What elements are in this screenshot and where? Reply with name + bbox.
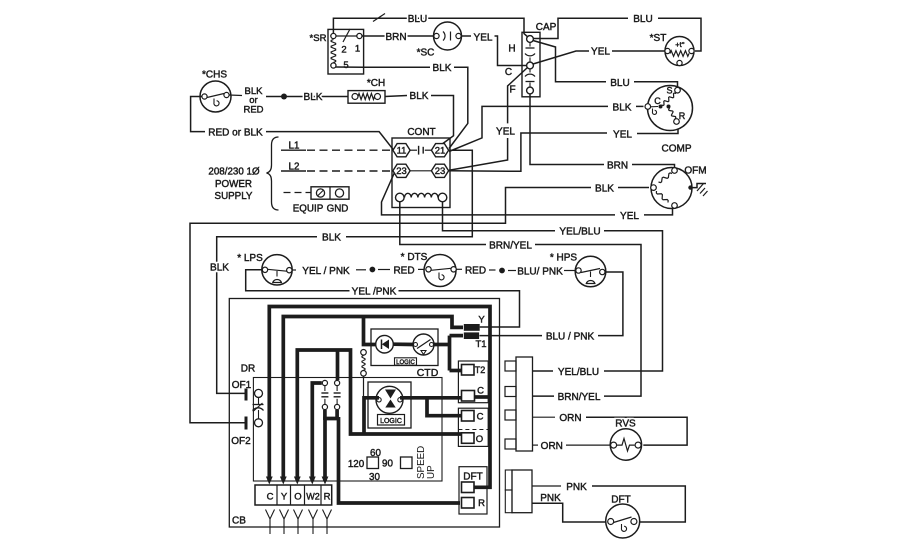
power supply brace — [267, 137, 279, 210]
svg-text:* DTS: * DTS — [401, 252, 428, 263]
svg-text:RVS: RVS — [615, 419, 636, 430]
wire BRN/YEL from contactor coil to board connector — [400, 202, 486, 245]
svg-text:*ST: *ST — [650, 33, 667, 44]
wire BLK from CH to contactor 21 — [385, 96, 407, 97]
svg-text:C: C — [505, 67, 512, 78]
svg-text:BLK: BLK — [410, 91, 429, 102]
wire YEL / PNK from LPS to junction — [292, 269, 296, 271]
logic block 2 box — [368, 382, 411, 428]
CONT terminal 23 left — [393, 164, 410, 177]
svg-text:208/230 1Ø: 208/230 1Ø — [208, 167, 260, 178]
svg-text:1: 1 — [355, 44, 360, 55]
wire BLU from CAP H to compressor S — [533, 41, 606, 82]
svg-text:CONT: CONT — [407, 127, 435, 138]
svg-text:* LPS: * LPS — [237, 253, 263, 264]
CAP terminal H — [527, 36, 534, 43]
terminal O square — [462, 433, 475, 444]
thick wire between CTD circles — [393, 342, 413, 346]
wire YEL/BLU from contactor coil to board connector — [443, 202, 556, 231]
wire YEL from SC to CAP C — [461, 35, 471, 37]
svg-text:BLU: BLU — [610, 78, 629, 89]
svg-text:H: H — [508, 44, 515, 55]
svg-text:LOGIC: LOGIC — [396, 360, 415, 366]
svg-text:S: S — [666, 86, 672, 96]
thick wire Y from strip to Y terminal — [283, 317, 463, 482]
svg-text:BLU/ PNK: BLU/ PNK — [517, 267, 563, 278]
svg-text:BLK: BLK — [322, 233, 341, 244]
DR relay contact 2 — [335, 380, 340, 385]
svg-text:21: 21 — [435, 146, 446, 157]
field wiring forks below strip — [266, 510, 275, 520]
svg-text:*SC: *SC — [417, 48, 435, 59]
LOGIC label box 2 — [378, 415, 405, 426]
svg-text:T1: T1 — [475, 339, 486, 350]
svg-text:C: C — [267, 492, 274, 503]
svg-text:YEL: YEL — [620, 211, 639, 222]
wire BLK from SR 5 to contactor 21 — [336, 66, 365, 68]
svg-text:R: R — [324, 492, 331, 503]
svg-text:*CHS: *CHS — [202, 70, 227, 81]
terminal box T2 C — [458, 361, 488, 403]
sensor chain to logic block — [361, 350, 367, 356]
board edge connector comb — [516, 357, 533, 451]
wire BRN from CAP F to OFM — [530, 94, 604, 165]
svg-text:BLK: BLK — [613, 102, 632, 113]
svg-text:BLU / PNK: BLU / PNK — [546, 332, 595, 343]
CTD LOGIC label box — [395, 358, 417, 365]
SR coil — [331, 40, 336, 63]
svg-text:C: C — [477, 412, 484, 423]
capacitor symbol between OF1 and OF2 — [253, 404, 264, 406]
CONT contact symbol — [410, 149, 417, 151]
CTD triac circle — [376, 335, 394, 353]
svg-text:COMP: COMP — [662, 144, 692, 155]
svg-text:RED or BLK: RED or BLK — [208, 128, 263, 139]
svg-text:BLK: BLK — [210, 263, 229, 274]
thermostat terminal strip C Y O W2 R — [255, 485, 332, 505]
svg-text:OF2: OF2 — [231, 436, 251, 447]
svg-text:BRN/YEL: BRN/YEL — [558, 392, 601, 403]
DFT terminal square — [462, 482, 475, 493]
control board CB box — [229, 299, 499, 528]
wire YEL from CAP C to contactor 23 — [508, 68, 528, 124]
svg-text:C: C — [477, 386, 484, 397]
terminal box C O — [458, 408, 488, 446]
DFT terminal box — [459, 467, 487, 514]
svg-text:PNK: PNK — [540, 493, 561, 504]
svg-text:BLK: BLK — [304, 92, 323, 103]
thick wire logic2 left joining O bus — [364, 398, 379, 433]
svg-text:YEL: YEL — [474, 33, 493, 44]
thick wire C from strip to C terminal and DFT — [269, 307, 490, 488]
wire ORN from connector to RVS right — [533, 416, 556, 418]
thick wire from Y line to CTD — [364, 317, 377, 345]
wire YEL/PNK from board Y terminal to LPS — [399, 291, 520, 327]
terminal C square upper — [462, 391, 475, 402]
wire YEL from contactor 23 to OFM — [382, 173, 616, 215]
wire BRN from SR contact to SC — [362, 35, 434, 37]
terminal Y bar — [464, 324, 480, 331]
terminal T1 bar — [464, 332, 479, 339]
wire YEL from contactor 23 to compressor R — [449, 133, 607, 171]
wire RED to DTS — [378, 269, 390, 271]
svg-text:120: 120 — [348, 459, 365, 470]
svg-text:YEL/BLU: YEL/BLU — [559, 227, 600, 238]
svg-text:* HPS: * HPS — [550, 253, 578, 264]
compressor time delay CTD box — [371, 329, 438, 366]
svg-text:5: 5 — [343, 60, 348, 71]
svg-text:YEL: YEL — [613, 129, 632, 140]
arrow tick on BLU wire — [373, 14, 385, 22]
svg-text:BRN/YEL: BRN/YEL — [489, 241, 532, 252]
svg-text:Y: Y — [281, 492, 288, 503]
svg-text:90: 90 — [382, 459, 393, 470]
svg-text:BLK: BLK — [595, 184, 614, 195]
CAP terminal C — [527, 62, 534, 69]
terminal C square lower — [462, 411, 475, 422]
thick wire R from strip to DR contacts and R terminal — [325, 410, 337, 481]
DR relay contact 1 — [322, 380, 327, 385]
svg-text:BRN: BRN — [385, 32, 406, 43]
logic block 2 triac circle — [376, 386, 403, 413]
svg-text:*SR: *SR — [310, 33, 327, 44]
svg-text:YEL / PNK: YEL / PNK — [302, 266, 350, 277]
svg-text:YEL: YEL — [496, 126, 515, 137]
svg-text:30: 30 — [369, 472, 380, 483]
svg-text:T2: T2 — [475, 365, 486, 375]
svg-text:W2: W2 — [306, 492, 320, 502]
wire BLU / PNK from HPS to board T1 — [598, 272, 623, 336]
svg-text:+t°: +t° — [675, 40, 684, 49]
svg-text:Y: Y — [478, 315, 485, 326]
wire ORN from connector to RVS left — [533, 444, 539, 446]
thick wire O from strip to DR contact and O terminal — [297, 350, 461, 481]
contactor CONT box — [392, 138, 450, 208]
terminal OF2 — [245, 417, 248, 430]
CONT terminal 11 — [393, 144, 410, 157]
svg-text:POWER: POWER — [215, 179, 252, 190]
svg-text:23: 23 — [435, 166, 446, 177]
svg-text:RED: RED — [393, 266, 414, 277]
svg-text:BLU: BLU — [633, 14, 652, 25]
defrost relay DR box — [253, 378, 442, 482]
svg-text:RED: RED — [243, 105, 263, 116]
CTD timer circle — [413, 334, 434, 355]
svg-text:GND: GND — [327, 204, 349, 215]
wire BLK from contactor 21 to compressor C — [449, 106, 608, 151]
thick wire CTD to T1 and T2 terminals — [434, 343, 450, 347]
svg-text:R: R — [478, 498, 485, 509]
svg-text:BLU: BLU — [408, 14, 427, 25]
wire RED or BLK from CHS to contactor 11 — [191, 97, 205, 132]
svg-text:*CH: *CH — [367, 78, 385, 89]
svg-text:2: 2 — [341, 45, 346, 56]
svg-text:O: O — [294, 492, 301, 503]
wire BLK from OFM to OF2 contact — [618, 187, 649, 189]
wire BLK or RED from CHS to CH heater — [229, 94, 242, 97]
CAP terminal F — [527, 87, 534, 94]
crankcase heater CH box — [348, 91, 385, 104]
wire PNK from connector to DFT right — [532, 485, 561, 487]
wire BLU from SR coil top to CAP H terminal — [333, 18, 528, 37]
SR coil bottom terminal 5 — [331, 63, 336, 68]
svg-text:BRN: BRN — [607, 161, 628, 172]
terminal T2 square — [462, 365, 475, 376]
svg-text:SUPPLY: SUPPLY — [215, 191, 253, 202]
svg-text:11: 11 — [397, 146, 407, 157]
terminal R square — [462, 498, 475, 509]
svg-text:R: R — [679, 111, 686, 121]
svg-text:YEL/BLU: YEL/BLU — [558, 367, 599, 378]
CONT terminal 21 — [431, 144, 448, 157]
svg-text:O: O — [476, 434, 483, 445]
svg-text:YEL: YEL — [591, 47, 610, 58]
svg-text:OF1: OF1 — [232, 380, 252, 391]
svg-text:EQUIP: EQUIP — [293, 204, 324, 215]
svg-text:RED: RED — [465, 265, 486, 276]
CONT terminal 23 right — [431, 164, 448, 177]
svg-text:CB: CB — [232, 516, 246, 527]
svg-text:CAP: CAP — [536, 22, 557, 33]
equipment ground terminal — [284, 192, 312, 194]
svg-text:BLK: BLK — [433, 63, 452, 74]
CONT coil — [396, 193, 405, 202]
svg-text:DFT: DFT — [463, 472, 482, 483]
junction dot — [370, 267, 376, 273]
svg-text:DR: DR — [241, 364, 255, 375]
thick wire logic2 right to C terminals — [400, 396, 461, 400]
svg-text:PNK: PNK — [566, 482, 587, 493]
junction dot — [266, 96, 348, 98]
svg-text:ORN: ORN — [541, 441, 563, 452]
SR contact terminal left — [331, 33, 336, 38]
svg-text:YEL /PNK: YEL /PNK — [352, 287, 397, 298]
svg-text:UP: UP — [426, 465, 437, 479]
svg-text:CTD: CTD — [417, 367, 439, 379]
svg-text:LOGIC: LOGIC — [380, 418, 402, 425]
relay SR box — [328, 29, 364, 74]
defrost connector comb — [512, 470, 532, 513]
SR contact blade with slash — [336, 35, 357, 37]
svg-text:C: C — [654, 96, 661, 106]
wire BLK from contactor 21 to OF1 contact — [346, 150, 472, 237]
junction dot — [499, 268, 505, 274]
svg-text:ORN: ORN — [559, 413, 581, 424]
ground symbol at OFM — [693, 184, 707, 188]
CAP plate symbols — [529, 43, 531, 47]
svg-text:23: 23 — [396, 166, 407, 177]
thick wire W2 from strip to DR contact 1 — [312, 383, 322, 481]
wire RED from DTS to junction — [457, 268, 463, 270]
svg-text:F: F — [509, 85, 515, 96]
SR contact terminal right — [357, 33, 362, 38]
wire YEL from CAP C to ST — [533, 51, 589, 64]
wire BLU/ PNK to HPS — [508, 270, 516, 272]
wire BLU from CAP H to ST — [534, 18, 629, 38]
